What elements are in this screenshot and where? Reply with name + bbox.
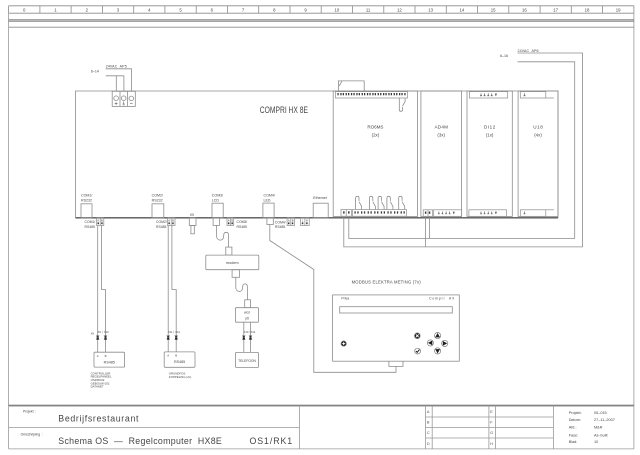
svg-text:modem: modem: [226, 261, 239, 265]
modbus panel U2: [333, 295, 460, 361]
svg-text:05–015: 05–015: [594, 411, 607, 415]
svg-text:Blad:: Blad:: [569, 440, 578, 444]
RS485 converter unit 1: [94, 352, 125, 367]
ruler strip top: [9, 6, 634, 13]
svg-text:17: 17: [553, 7, 558, 12]
svg-text:A: A: [97, 354, 99, 358]
svg-text:COM1/: COM1/: [85, 220, 96, 224]
svg-text:Compri HX: Compri HX: [429, 297, 455, 301]
svg-text:KOPPELING (2x): KOPPELING (2x): [169, 375, 192, 379]
svg-text:B: B: [175, 354, 177, 358]
panel down button: [435, 348, 441, 354]
svg-text:X12: X12: [175, 330, 180, 334]
module supply bus wires: [344, 216, 583, 247]
connector COM1/RS485: [97, 218, 104, 226]
svg-text:6–16: 6–16: [500, 54, 508, 58]
svg-text:LED: LED: [264, 198, 271, 202]
svg-text:(4x): (4x): [534, 133, 542, 138]
svg-text:RS485: RS485: [85, 225, 95, 229]
svg-text:13: 13: [428, 7, 433, 12]
splice X11: [167, 336, 170, 340]
svg-text:Fase:: Fase:: [569, 434, 579, 438]
splice X10: [104, 336, 107, 340]
panel display: [340, 307, 453, 313]
panel tab: [389, 361, 403, 366]
connector COM1/RS232: [81, 204, 92, 218]
AD4M bottom terminal strip: [434, 210, 462, 217]
svg-text:C: C: [427, 431, 430, 435]
svg-text:MODBUS ELEKTRA METING (7x): MODBUS ELEKTRA METING (7x): [352, 280, 422, 285]
svg-text:X6: X6: [91, 332, 95, 336]
svg-text:B: B: [292, 219, 294, 223]
svg-text:A: A: [168, 219, 170, 223]
svg-text:X11: X11: [168, 330, 173, 334]
svg-text:A: A: [288, 219, 290, 223]
panel cancel button: [414, 333, 420, 339]
svg-text:15: 15: [491, 7, 496, 12]
splice X14: [249, 336, 252, 340]
wire COM1 A to RS485 unit: [97, 226, 99, 353]
svg-text:DATANET: DATANET: [91, 385, 104, 389]
svg-text:Afd.:: Afd.:: [569, 425, 577, 429]
wire COM3 to modem: [217, 225, 229, 247]
AD4M bottom bus connector: [423, 210, 433, 217]
svg-text:COM4/: COM4/: [275, 220, 286, 224]
module AD4M (3x): [421, 91, 462, 216]
svg-text:X10: X10: [104, 330, 109, 334]
svg-text:A: A: [228, 219, 230, 223]
svg-text:H: H: [306, 219, 308, 223]
RS485 unit 2 description: [169, 372, 192, 379]
telefoon unit: [236, 352, 259, 367]
svg-text:COM2/: COM2/: [152, 194, 163, 198]
svg-text:B: B: [101, 219, 103, 223]
svg-text:RO6MS: RO6MS: [367, 125, 383, 130]
panel up button: [435, 333, 441, 339]
svg-text:U18: U18: [533, 125, 543, 130]
svg-text:Bedrijfsrestaurant: Bedrijfsrestaurant: [58, 414, 139, 424]
svg-text:COM2/: COM2/: [156, 220, 167, 224]
svg-text:Datum:: Datum:: [569, 418, 581, 422]
RS485 unit 1 description: [91, 371, 112, 388]
svg-text:RS485: RS485: [156, 225, 166, 229]
connector L/H: [301, 218, 310, 226]
connector COM2/RS232: [152, 204, 164, 218]
svg-text:X13: X13: [244, 330, 249, 334]
wcd ptt outlet: [235, 308, 258, 323]
svg-text:A: A: [97, 219, 99, 223]
svg-text:18: 18: [585, 7, 590, 12]
svg-text:10: 10: [335, 7, 340, 12]
module DI12 (1x): [467, 91, 512, 216]
module U18 (4x): [518, 91, 558, 216]
svg-text:RS485: RS485: [275, 225, 285, 229]
wire modem to wcd ptt: [236, 277, 248, 300]
svg-text:(1x): (1x): [486, 133, 494, 138]
svg-text:B: B: [172, 219, 174, 223]
connector Ethernet: [313, 203, 328, 218]
svg-text:24VAC AP6: 24VAC AP6: [518, 49, 539, 53]
svg-text:6–14: 6–14: [91, 70, 99, 74]
svg-text:OS1/RK1: OS1/RK1: [250, 436, 293, 446]
svg-text:RS485: RS485: [104, 360, 115, 364]
title block frame: [9, 404, 634, 406]
svg-text:19: 19: [616, 7, 621, 12]
splice X12: [175, 336, 178, 340]
U18 top terminal strip: [520, 92, 554, 98]
panel ok button: [415, 348, 421, 354]
svg-text:wcd: wcd: [244, 311, 250, 315]
svg-text:COM3/: COM3/: [237, 220, 248, 224]
svg-text:(2x): (2x): [372, 133, 380, 138]
supply wires AP5: [106, 69, 132, 92]
wire wcd to telefoon left: [243, 322, 245, 352]
svg-text:X9: X9: [98, 330, 102, 334]
wire COM4 to modbus panel: [270, 225, 396, 373]
svg-text:Priva: Priva: [341, 297, 349, 301]
wire COM2 A to RS485 unit 2: [167, 226, 169, 352]
svg-text:M&R: M&R: [594, 425, 603, 429]
ruler numbers: [23, 7, 621, 12]
RO6MS bottom terminal strip: [353, 210, 407, 217]
svg-text:B: B: [231, 219, 233, 223]
RO6MS bottom bus connector: [341, 210, 351, 217]
U18 bottom terminal strip: [520, 210, 554, 217]
svg-text:Projekt:: Projekt:: [569, 411, 582, 415]
svg-text:Projekt :: Projekt :: [23, 410, 36, 414]
svg-text:B: B: [105, 354, 107, 358]
splice X9: [96, 336, 99, 340]
svg-text:LCD: LCD: [212, 198, 220, 202]
svg-text:RS232: RS232: [81, 198, 92, 202]
wire wcd to telefoon right: [250, 322, 252, 352]
main unit COMPRI HX 8E enclosure: [76, 91, 559, 218]
modem plug bottom: [232, 270, 239, 278]
svg-text:COM3/: COM3/: [212, 194, 223, 198]
RO6MS relay contact loop above strip: [338, 81, 364, 92]
svg-text:AD4M: AD4M: [434, 125, 448, 130]
svg-text:As–built: As–built: [594, 434, 608, 438]
svg-text:D: D: [427, 442, 430, 446]
modem: [206, 255, 259, 270]
svg-text:COMPRI HX 8E: COMPRI HX 8E: [260, 105, 308, 115]
wire COM2 B to RS485 unit 2: [172, 226, 176, 352]
wire COM1 B to RS485 unit: [102, 226, 106, 353]
svg-text:K5: K5: [190, 213, 194, 217]
COM3 plug: [213, 218, 219, 226]
RO6MS relay contact below top strip: [399, 98, 405, 111]
svg-text:10: 10: [594, 440, 598, 444]
connector COM2/RS485: [168, 218, 176, 226]
svg-text:COM1/: COM1/: [81, 194, 92, 198]
power terminal block X1: [112, 91, 135, 106]
RO6MS top terminal strip: [335, 92, 407, 98]
DI12 top terminal strip: [469, 92, 507, 98]
svg-text:Schema OS — Regelcomputer H: Schema OS — Regelcomputer HX8E: [58, 436, 222, 446]
panel right button: [442, 340, 448, 346]
panel menu button: [341, 341, 346, 346]
svg-text:G: G: [490, 431, 493, 435]
svg-text:H: H: [490, 442, 493, 446]
svg-text:27–11–2007: 27–11–2007: [594, 418, 615, 422]
svg-text:12: 12: [397, 7, 402, 12]
svg-text:16: 16: [522, 7, 527, 12]
svg-text:RS485: RS485: [174, 360, 185, 364]
splice X13: [242, 336, 245, 340]
svg-text:14: 14: [460, 7, 465, 12]
DI12 bottom terminal strip: [469, 210, 507, 217]
connector COM3/LCD: [212, 203, 223, 218]
svg-text:X14: X14: [251, 330, 256, 334]
svg-text:TELEFOON: TELEFOON: [238, 359, 256, 363]
svg-text:A: A: [167, 354, 169, 358]
connector COM3/RS485: [227, 218, 234, 226]
svg-text:(3x): (3x): [437, 133, 445, 138]
svg-text:COM4/: COM4/: [264, 194, 275, 198]
svg-text:RS485: RS485: [237, 225, 247, 229]
RO6MS relay contacts above bottom strip: [356, 196, 362, 209]
svg-text:ptt: ptt: [245, 316, 249, 320]
COM4 plug: [267, 218, 273, 225]
svg-text:Omschrijving :: Omschrijving :: [21, 432, 43, 436]
svg-text:DI12: DI12: [484, 125, 496, 130]
main unit bold bottom rail: [76, 217, 559, 219]
modem plug top: [226, 247, 232, 255]
svg-text:11: 11: [366, 7, 371, 12]
RS485 converter unit 2: [164, 352, 195, 367]
svg-text:24VAC AP5: 24VAC AP5: [106, 64, 127, 68]
module RO6MS (2x): [333, 91, 417, 216]
24VAC AP6 feed wires: [518, 53, 583, 247]
wcd plug top: [245, 300, 251, 308]
svg-text:Ethernet: Ethernet: [313, 196, 327, 200]
panel left button: [427, 340, 433, 346]
svg-text:RS232: RS232: [152, 198, 163, 202]
connector COM4/LED: [263, 203, 274, 218]
